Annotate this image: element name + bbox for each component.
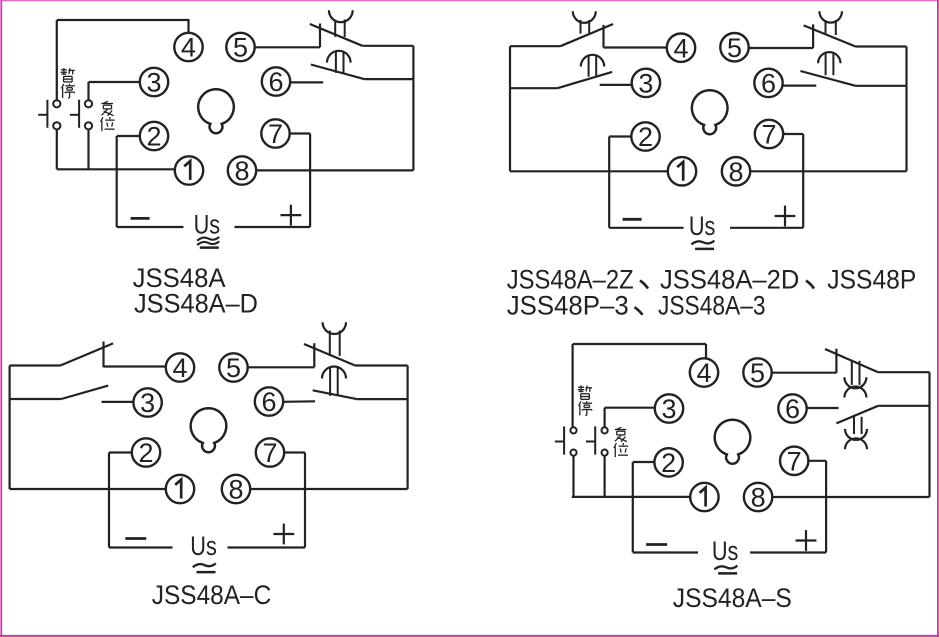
svg-text:3: 3 (146, 68, 161, 98)
svg-text:7: 7 (268, 119, 283, 149)
svg-text:7: 7 (761, 120, 776, 150)
svg-text:7: 7 (787, 447, 802, 477)
svg-text:2: 2 (146, 122, 161, 152)
svg-text:JSS48P–3: JSS48P–3 (507, 291, 629, 321)
svg-text:3: 3 (638, 69, 653, 99)
svg-text:Us: Us (194, 210, 221, 240)
svg-text:4: 4 (172, 353, 187, 383)
svg-text:4: 4 (696, 358, 711, 388)
svg-text:Us: Us (712, 536, 739, 566)
svg-text:JSS48A–C: JSS48A–C (152, 580, 271, 610)
svg-text:5: 5 (233, 33, 248, 63)
svg-text:6: 6 (261, 387, 276, 417)
svg-text:6: 6 (268, 67, 283, 97)
svg-text:JSS48A–S: JSS48A–S (673, 583, 792, 613)
svg-text:8: 8 (751, 483, 766, 513)
svg-text:5: 5 (750, 358, 765, 388)
svg-text:6: 6 (761, 69, 776, 99)
svg-text:7: 7 (262, 438, 277, 468)
svg-text:JSS48P: JSS48P (827, 264, 916, 294)
svg-text:Us: Us (689, 211, 716, 241)
svg-text:4: 4 (673, 33, 688, 63)
svg-text:JSS48A–3: JSS48A–3 (658, 291, 766, 321)
svg-text:8: 8 (728, 157, 743, 187)
svg-text:2: 2 (638, 122, 653, 152)
svg-text:2: 2 (138, 438, 153, 468)
svg-text:3: 3 (661, 394, 676, 424)
svg-text:8: 8 (234, 156, 249, 186)
svg-text:3: 3 (140, 388, 155, 418)
svg-text:4: 4 (181, 33, 196, 63)
svg-text:5: 5 (226, 353, 241, 383)
svg-text:8: 8 (228, 475, 243, 505)
svg-text:Us: Us (190, 531, 217, 561)
svg-text:JSS48A–D: JSS48A–D (134, 288, 258, 318)
svg-text:5: 5 (727, 33, 742, 63)
svg-text:6: 6 (785, 394, 800, 424)
svg-text:2: 2 (661, 448, 676, 478)
